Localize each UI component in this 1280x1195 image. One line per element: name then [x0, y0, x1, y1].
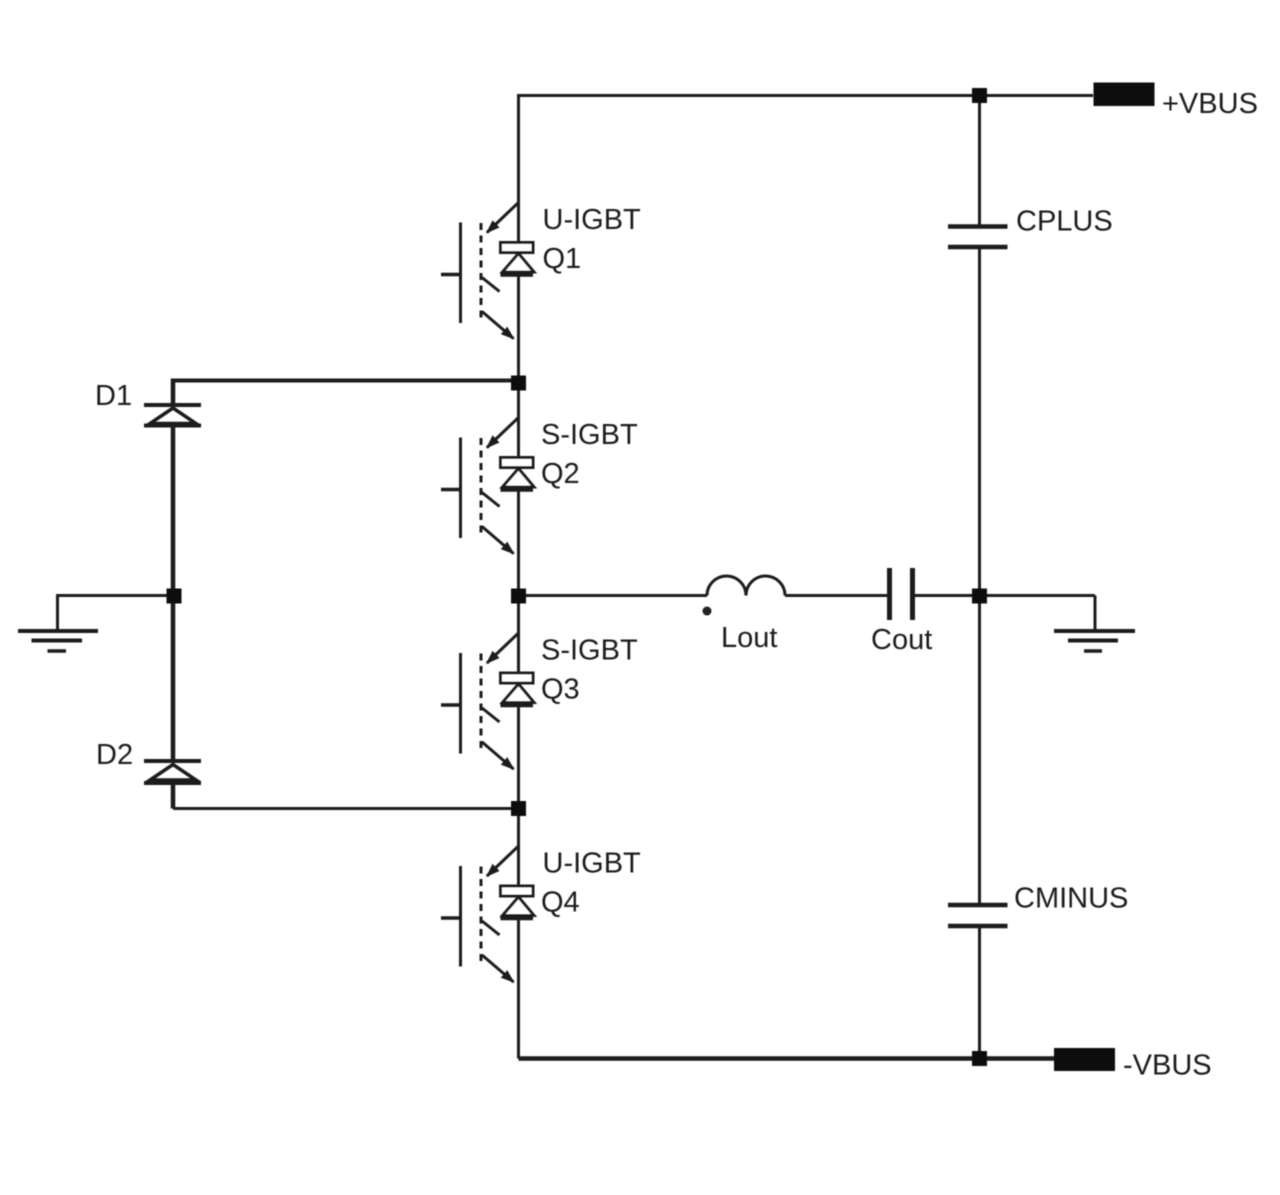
- capacitor Cout: [890, 568, 913, 620]
- svg-text:S-IGBT: S-IGBT: [541, 635, 638, 667]
- terminal -VBUS: [1054, 1048, 1115, 1071]
- wire Cout to right bus: [915, 594, 980, 597]
- transistor Q1: [441, 203, 534, 339]
- terminal +VBUS: [1094, 83, 1155, 107]
- capacitor CPLUS: [948, 227, 1008, 248]
- node -VBUS bus junction: [972, 1051, 987, 1066]
- svg-text:Lout: Lout: [721, 622, 777, 654]
- svg-text:+VBUS: +VBUS: [1162, 88, 1258, 120]
- transistor Q3: [441, 633, 534, 769]
- svg-text:S-IGBT: S-IGBT: [541, 419, 638, 451]
- wire neutral node to left ground: [58, 596, 175, 631]
- wire D1 to Q1-Q2 node: [173, 379, 519, 383]
- svg-text:D2: D2: [96, 739, 133, 771]
- wire D2 to Q3-Q4 node: [173, 807, 519, 810]
- svg-text:Q1: Q1: [543, 243, 582, 275]
- svg-text:Q4: Q4: [541, 887, 580, 919]
- svg-text:Q3: Q3: [541, 674, 580, 706]
- svg-text:Q2: Q2: [541, 458, 580, 490]
- wire top bus: [519, 96, 1094, 98]
- node Q3-Q4 junction: [511, 801, 526, 816]
- wire output node to Lout: [519, 594, 708, 597]
- wire right bus lower: [978, 928, 981, 1059]
- ground right: [1054, 596, 1135, 652]
- svg-text:U-IGBT: U-IGBT: [543, 204, 642, 236]
- node +VBUS bus junction: [972, 88, 987, 103]
- diode D2: [144, 761, 201, 783]
- svg-text:D1: D1: [95, 380, 132, 412]
- wire main vertical leg: [517, 96, 520, 1059]
- wire left branch upper (corner to D1): [171, 379, 176, 405]
- wire right bus middle: [978, 249, 981, 903]
- svg-text:-VBUS: -VBUS: [1123, 1050, 1212, 1082]
- node neutral ground tap: [167, 589, 182, 604]
- wire Lout to Cout: [785, 594, 887, 597]
- node filter output junction: [972, 589, 987, 604]
- svg-text:Cout: Cout: [871, 624, 932, 656]
- transistor Q4: [441, 846, 534, 982]
- wire right bus to right ground: [980, 594, 1096, 597]
- Lout phase dot: [703, 607, 712, 616]
- node Q1-Q2 junction: [511, 376, 526, 391]
- transistor Q2: [441, 418, 534, 554]
- node output junction: [511, 589, 526, 604]
- svg-text:CMINUS: CMINUS: [1014, 883, 1128, 915]
- wire D1 to D2: [171, 427, 176, 761]
- svg-text:CPLUS: CPLUS: [1016, 206, 1113, 238]
- wire bottom bus: [519, 1056, 1055, 1061]
- wire right bus upper: [978, 96, 981, 225]
- ground left: [18, 631, 98, 651]
- capacitor CMINUS: [948, 905, 1008, 926]
- inductor Lout: [707, 576, 785, 596]
- wire D2 anode down: [171, 785, 176, 809]
- diode D1: [144, 405, 201, 426]
- svg-text:U-IGBT: U-IGBT: [543, 848, 642, 880]
